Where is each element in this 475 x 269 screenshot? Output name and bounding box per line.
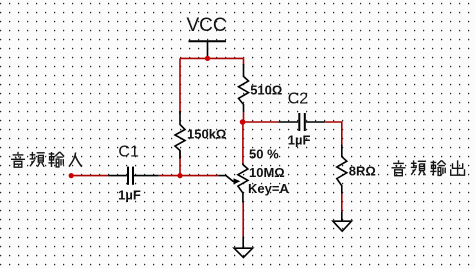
svg-text:C1: C1 [118, 144, 139, 161]
svg-text:510Ω: 510Ω [250, 82, 282, 97]
svg-text:10MΩ: 10MΩ [249, 165, 285, 180]
svg-text:50 %: 50 % [249, 147, 279, 162]
svg-text:C2: C2 [288, 90, 309, 107]
svg-text:VCC: VCC [187, 15, 227, 36]
svg-text:150kΩ: 150kΩ [187, 127, 226, 142]
svg-text:1µF: 1µF [118, 188, 141, 203]
svg-text:8RΩ: 8RΩ [349, 163, 376, 178]
svg-text:Key=A: Key=A [248, 181, 289, 196]
svg-text:1µF: 1µF [288, 132, 311, 147]
